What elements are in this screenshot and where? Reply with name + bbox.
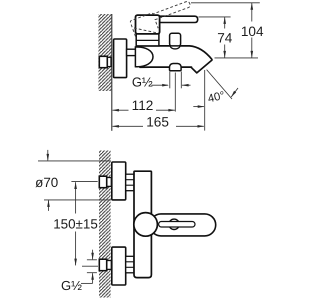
indicator dot circle (front view) — [169, 219, 179, 229]
arrowheads G1/2 + outlet — [162, 84, 169, 87]
lower wall nut (front view) — [99, 259, 111, 271]
lever handle (front view) — [150, 214, 216, 236]
inlet neck pipe (side view) — [127, 49, 137, 55]
extension line lower connection centre — [82, 265, 98, 267]
faucet body and spout (side view) — [140, 46, 212, 73]
arrowheads dia70 — [47, 154, 50, 161]
spout tip extension line — [204, 70, 206, 131]
vertical faucet body (front view) — [134, 171, 151, 277]
svg-text:104: 104 — [241, 24, 264, 39]
collar ring line — [136, 39, 159, 41]
dimension line 104 — [251, 3, 253, 22]
extension line escutcheon bottom (dia 70) — [44, 199, 111, 201]
handle slot (front view) — [159, 222, 195, 228]
outlet centre extension line — [174, 73, 176, 112]
extension line spout outlet level — [215, 57, 259, 59]
raised handle (dashed phantom) — [130, 0, 194, 36]
cartridge collar (side view) — [136, 34, 159, 46]
dia70 arrow stems — [47, 150, 49, 161]
arrowhead 40deg on diagonal — [231, 91, 236, 97]
svg-text:74: 74 — [217, 30, 233, 45]
wall face / extension line (side view) — [111, 14, 113, 131]
arrowhead 40deg at tip ext — [198, 105, 205, 108]
dimension line 165 — [113, 125, 143, 127]
extension line raised-handle top — [191, 2, 260, 4]
extension line lever top — [199, 16, 231, 18]
arrowheads G1/2 (front) — [91, 253, 94, 260]
svg-text:G½: G½ — [61, 278, 82, 293]
lower escutcheon (front view) — [112, 247, 126, 285]
svg-text:G½: G½ — [132, 75, 153, 90]
opposing arrow tail at outlet — [182, 84, 191, 86]
G1/2 arrow stems and leader — [92, 250, 94, 260]
arrowheads 112 — [112, 109, 119, 112]
dimension line 74 — [224, 17, 226, 29]
handle base block (side view) — [136, 15, 160, 34]
arrowheads 150+-15 — [74, 182, 77, 189]
diverter knob (side view) — [170, 33, 181, 46]
extension line upper connection centre — [71, 180, 97, 182]
G1/2 leader line (side) — [152, 84, 169, 86]
wall hatch band (front view) — [99, 151, 111, 298]
arrowheads 74 — [223, 17, 226, 24]
arrowheads 165 — [112, 125, 119, 128]
svg-text:150±15: 150±15 — [53, 217, 98, 232]
diverter knob foot (side view) — [170, 46, 180, 49]
raised handle phantom lower edge — [134, 28, 158, 33]
wall union nut (side view) — [99, 56, 111, 67]
upper wall nut (front view) — [99, 176, 111, 188]
union ball (side view) — [135, 47, 153, 67]
40 deg second arrow tail — [193, 106, 204, 108]
lever handle bar (side view) — [159, 16, 198, 22]
lower S-union ribs — [126, 256, 134, 273]
extension line escutcheon top (dia 70) — [38, 160, 111, 162]
G1/2 extension lines (lower nut) — [87, 259, 97, 261]
40 deg leader — [207, 70, 232, 99]
escutcheon (side view) — [114, 39, 127, 78]
wall hatch (side view) — [98, 14, 111, 91]
upper escutcheon (front view) — [112, 162, 126, 200]
dimension line 112 — [113, 109, 129, 111]
upper S-union ribs — [126, 174, 134, 191]
svg-text:112: 112 — [132, 98, 154, 113]
dimension line 150+-15 — [75, 182, 77, 213]
cartridge circle (front view) — [134, 213, 158, 237]
arrowheads 104 — [251, 3, 254, 10]
hand-shower outlet bump (side view) — [170, 64, 182, 71]
svg-text:165: 165 — [146, 114, 169, 129]
svg-text:ø70: ø70 — [35, 175, 58, 190]
outlet extension lines — [169, 72, 171, 89]
